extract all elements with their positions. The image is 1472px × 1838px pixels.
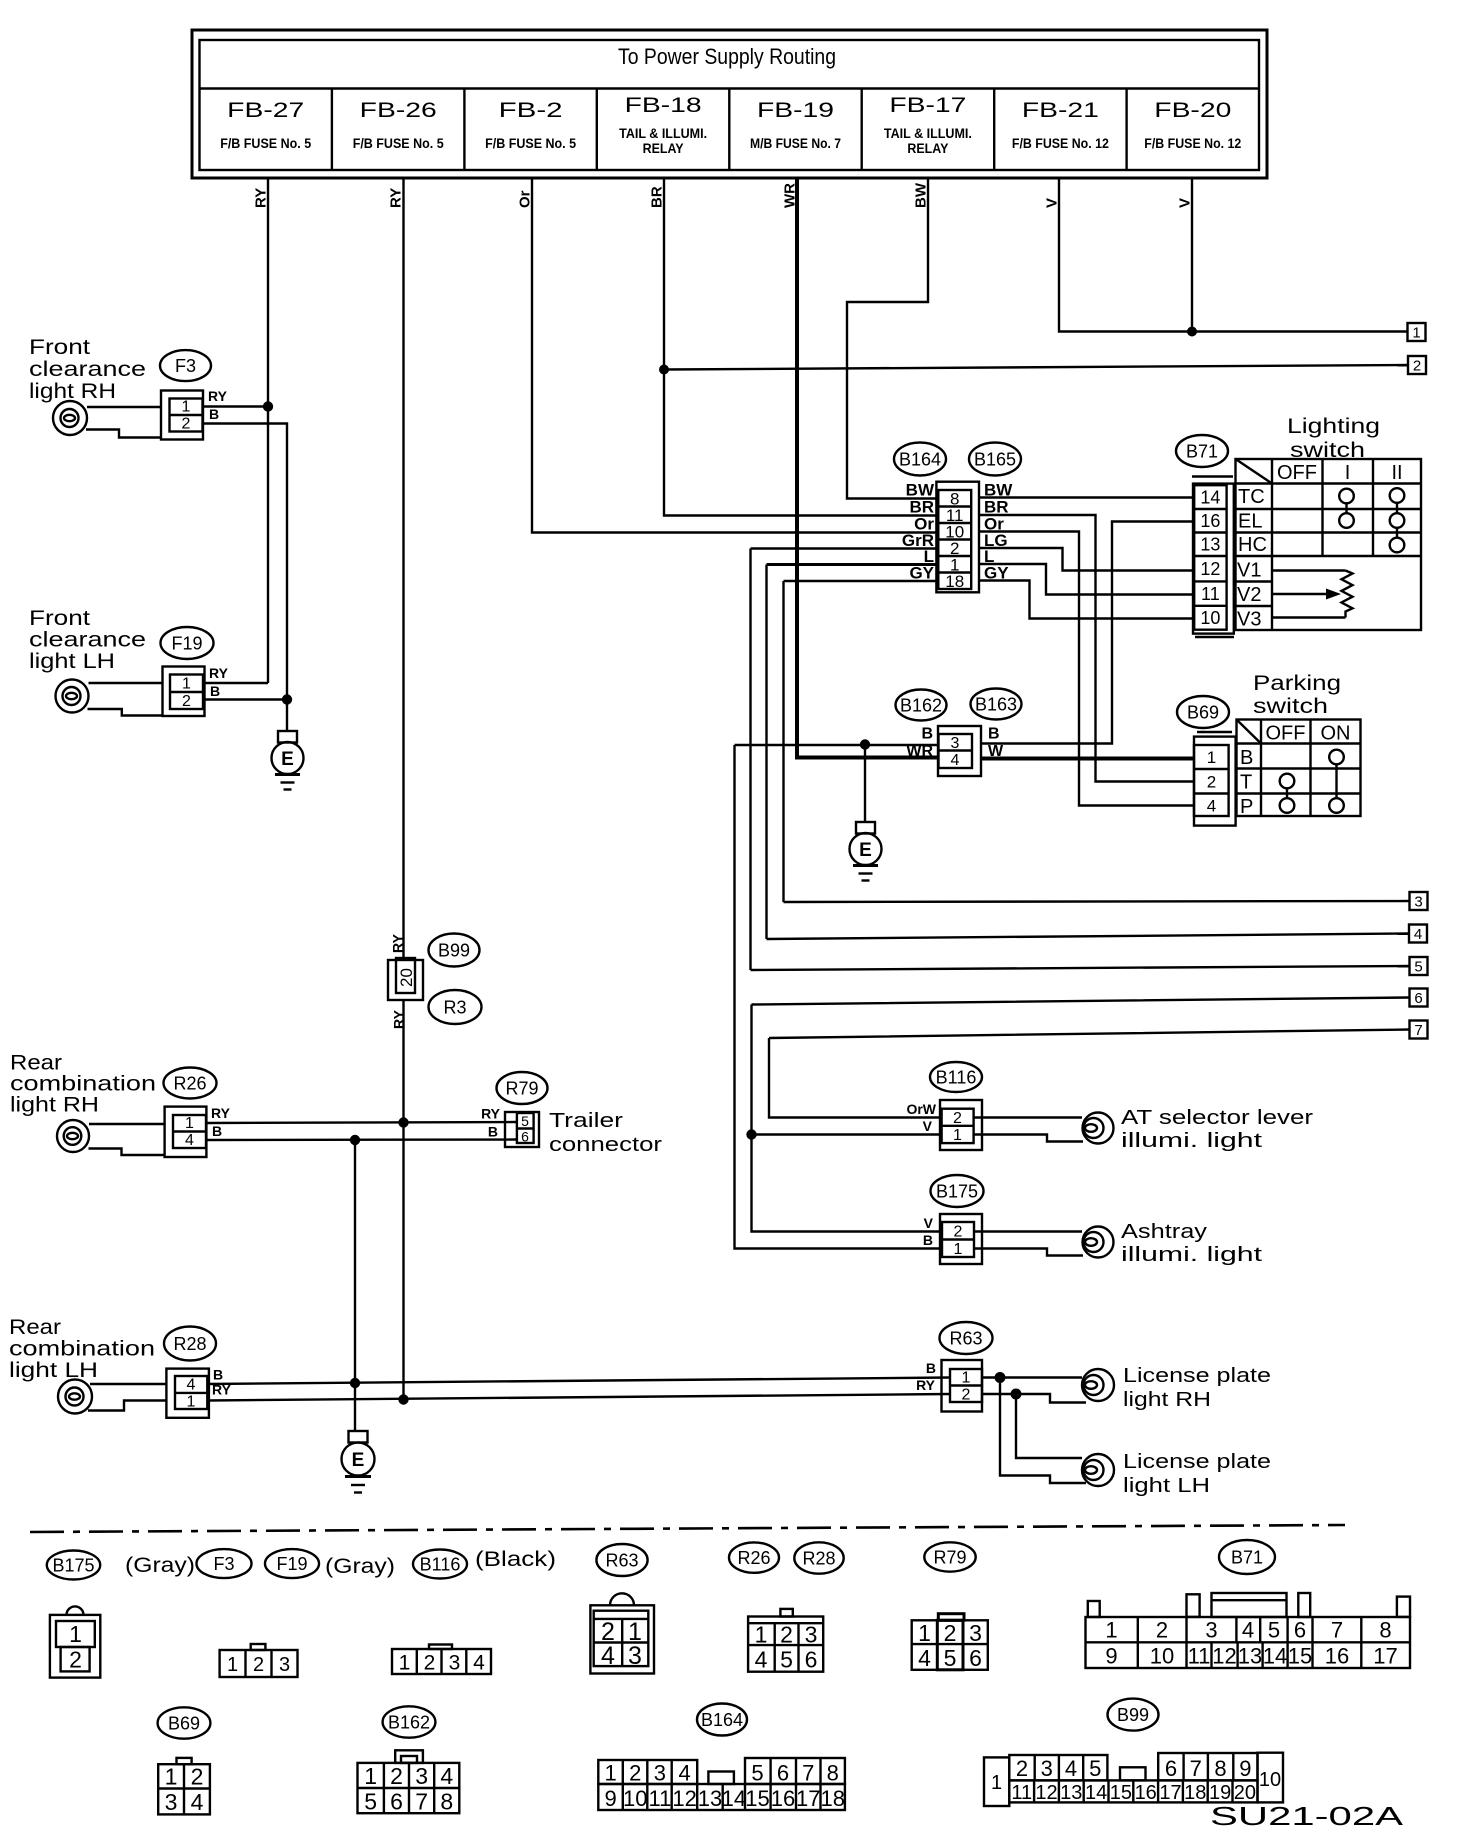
svg-text:FB-27: FB-27: [227, 99, 304, 122]
svg-text:13: 13: [1060, 1782, 1082, 1804]
svg-text:13: 13: [1238, 1644, 1262, 1669]
bulb rear combination LH: [58, 1380, 166, 1414]
svg-text:F3: F3: [213, 1554, 234, 1574]
node RY/FB-26 junction: [398, 1117, 408, 1127]
svg-text:2: 2: [1413, 358, 1421, 375]
svg-text:B163: B163: [975, 695, 1017, 715]
svg-text:6: 6: [805, 1647, 818, 1673]
svg-text:F19: F19: [276, 1554, 307, 1574]
bottom drawing R63: [590, 1593, 654, 1673]
svg-text:(Gray): (Gray): [125, 1554, 195, 1577]
wire to terminal 4: [767, 934, 1410, 940]
node F3 RY junction: [263, 401, 273, 411]
ground E B162: [850, 822, 882, 881]
svg-text:V2: V2: [1237, 584, 1261, 606]
bottom ref R28: [794, 1542, 843, 1573]
svg-text:combination: combination: [9, 1338, 155, 1361]
connector B116: [906, 1062, 982, 1150]
svg-text:B116: B116: [936, 1068, 977, 1088]
separator dash-dot line: [30, 1525, 1345, 1532]
connector R79 trailer: [481, 1072, 662, 1156]
bottom ref B164: [697, 1704, 747, 1736]
svg-text:2: 2: [253, 1654, 264, 1676]
svg-text:RY: RY: [481, 1106, 501, 1122]
bulb front clearance RH: [53, 401, 161, 438]
svg-text:20: 20: [397, 968, 416, 987]
svg-text:5: 5: [1268, 1618, 1280, 1643]
svg-text:FB-2: FB-2: [499, 99, 563, 122]
svg-text:4: 4: [440, 1763, 453, 1789]
svg-text:switch: switch: [1253, 695, 1328, 718]
svg-text:4: 4: [473, 1652, 485, 1675]
svg-text:B: B: [210, 683, 220, 699]
svg-text:9: 9: [604, 1786, 616, 1811]
connector R26: [164, 1068, 231, 1158]
svg-text:1: 1: [1105, 1618, 1117, 1643]
bulb rear combination RH: [57, 1120, 165, 1155]
bottom ref F19: [265, 1549, 319, 1578]
svg-text:HC: HC: [1238, 534, 1267, 556]
node rear B at R28: [350, 1378, 360, 1388]
svg-text:8: 8: [440, 1789, 453, 1815]
svg-text:B: B: [209, 406, 219, 422]
svg-text:B: B: [921, 726, 933, 743]
svg-text:B71: B71: [1186, 442, 1218, 462]
svg-text:6: 6: [1294, 1618, 1306, 1643]
wire to terminal 6: [752, 998, 1410, 1232]
svg-text:2: 2: [191, 1764, 204, 1790]
fuse cell FB-2: [485, 99, 576, 151]
fuse cell FB-21: [1012, 99, 1109, 151]
svg-text:B: B: [926, 1360, 936, 1376]
node R63 pin2: [1011, 1389, 1022, 1400]
svg-text:3: 3: [1205, 1618, 1217, 1643]
bulb license plate RH: [1082, 1365, 1271, 1411]
svg-text:13: 13: [698, 1786, 722, 1811]
node V junction: [1187, 327, 1197, 337]
wire F19 RY row: [205, 682, 268, 684]
label Lighting switch: [1287, 415, 1380, 462]
wire R26 RY row to trailer connector: [207, 1122, 518, 1123]
svg-text:R26: R26: [737, 1548, 770, 1568]
svg-text:B: B: [213, 1367, 223, 1383]
wire F3 RY row: [204, 405, 269, 407]
ground E rear combination: [342, 1431, 375, 1493]
connector R28: [164, 1327, 232, 1418]
svg-text:5: 5: [780, 1647, 793, 1673]
svg-text:3: 3: [1041, 1756, 1053, 1781]
svg-text:2: 2: [954, 1224, 963, 1241]
svg-text:RY: RY: [388, 188, 405, 208]
svg-text:GY: GY: [909, 564, 934, 583]
wire R63 pin1 branch: [982, 1378, 1086, 1484]
wire F19 B row: [205, 698, 287, 700]
svg-text:2: 2: [629, 1761, 641, 1786]
parking switch table: [1237, 720, 1361, 819]
svg-text:R26: R26: [173, 1074, 206, 1094]
svg-text:10: 10: [1259, 1769, 1281, 1791]
svg-text:1: 1: [165, 1764, 178, 1790]
wire B163 B row to B71 pin 16: [981, 522, 1194, 744]
svg-text:B99: B99: [438, 941, 470, 961]
wire LG to B71 pin 12: [979, 548, 1194, 571]
svg-text:1: 1: [1412, 325, 1420, 342]
svg-text:I: I: [1345, 462, 1351, 484]
svg-text:7: 7: [415, 1789, 428, 1815]
terminal 4: [1409, 925, 1427, 944]
svg-text:15: 15: [1288, 1644, 1312, 1669]
bottom ref R63: [596, 1544, 647, 1576]
svg-text:light RH: light RH: [1123, 1389, 1211, 1411]
svg-text:F/B FUSE No. 12: F/B FUSE No. 12: [1144, 135, 1241, 151]
wire F3 B row: [204, 424, 288, 700]
wire RY from FB-27: [267, 178, 269, 683]
svg-text:B71: B71: [1231, 1548, 1263, 1568]
label Parking switch: [1253, 672, 1341, 718]
svg-text:F/B FUSE No. 12: F/B FUSE No. 12: [1012, 135, 1109, 151]
svg-text:15: 15: [745, 1786, 769, 1811]
svg-text:10: 10: [1150, 1644, 1174, 1669]
svg-text:18: 18: [945, 572, 964, 591]
svg-text:18: 18: [1184, 1782, 1206, 1804]
svg-text:B164: B164: [899, 450, 941, 470]
svg-text:RY: RY: [211, 1105, 231, 1121]
connector R63: [916, 1322, 992, 1412]
svg-text:1: 1: [755, 1622, 768, 1648]
wire L vertical: [765, 565, 767, 940]
svg-text:R63: R63: [949, 1329, 982, 1349]
svg-text:SU21-02A: SU21-02A: [1210, 1801, 1404, 1831]
svg-text:R28: R28: [802, 1549, 835, 1569]
svg-text:13: 13: [1200, 535, 1220, 555]
svg-text:V: V: [923, 1118, 933, 1134]
wire V from FB-21 to terminal 1: [1059, 178, 1408, 332]
svg-text:2: 2: [962, 1387, 971, 1404]
node F19 B junction: [282, 694, 292, 704]
svg-text:16: 16: [1325, 1644, 1349, 1669]
svg-text:RELAY: RELAY: [907, 141, 948, 156]
svg-text:OFF: OFF: [1277, 462, 1317, 484]
svg-text:15: 15: [1110, 1782, 1132, 1804]
svg-text:F/B FUSE No. 5: F/B FUSE No. 5: [353, 135, 444, 151]
svg-text:B: B: [212, 1123, 222, 1139]
svg-text:2: 2: [1207, 773, 1216, 792]
connector B69: [1177, 696, 1236, 826]
svg-text:12: 12: [1212, 1644, 1236, 1669]
wire L row: [767, 563, 939, 566]
lighting switch table: [1236, 459, 1422, 631]
fuse cell FB-26: [353, 99, 444, 151]
node B162 B junction: [860, 739, 870, 749]
svg-text:4: 4: [951, 752, 960, 769]
bottom drawing B162: [358, 1750, 460, 1814]
wire R28 B row to R63: [207, 1378, 950, 1385]
svg-text:4: 4: [191, 1789, 204, 1815]
svg-text:R79: R79: [933, 1548, 966, 1568]
bottom ref B175: [47, 1551, 100, 1580]
wire L to B71 pin 11: [979, 564, 1194, 595]
svg-text:6: 6: [521, 1129, 529, 1145]
svg-text:3: 3: [654, 1761, 666, 1786]
svg-text:F19: F19: [171, 634, 202, 654]
bottom drawing B71: [1086, 1593, 1411, 1669]
svg-text:5: 5: [1414, 959, 1422, 976]
svg-text:3: 3: [951, 735, 960, 752]
wire GY to B71 pin 10: [979, 581, 1194, 619]
node terminal6/B116 V junction: [746, 1129, 756, 1139]
svg-text:B: B: [923, 1232, 933, 1248]
wire RY from FB-26: [402, 178, 404, 1400]
svg-text:Front: Front: [29, 607, 90, 630]
svg-text:RY: RY: [209, 665, 229, 681]
svg-text:B116: B116: [420, 1555, 461, 1575]
svg-text:7: 7: [1414, 1022, 1422, 1039]
node BR/terminal2 junction: [659, 365, 669, 375]
svg-text:11: 11: [1011, 1782, 1032, 1804]
svg-text:3: 3: [415, 1763, 428, 1789]
svg-text:2: 2: [944, 1620, 957, 1646]
svg-text:Rear: Rear: [9, 1316, 61, 1339]
svg-text:3: 3: [449, 1652, 461, 1675]
svg-text:9: 9: [1239, 1756, 1251, 1781]
bottom ref F3: [197, 1549, 252, 1578]
svg-text:Rear: Rear: [10, 1052, 62, 1075]
wire to terminal 2: [664, 365, 1408, 370]
svg-text:F/B FUSE No. 5: F/B FUSE No. 5: [485, 135, 576, 151]
svg-text:B: B: [988, 726, 1000, 743]
svg-text:6: 6: [1165, 1756, 1177, 1781]
wire to terminal 3: [784, 901, 1410, 902]
svg-text:E: E: [281, 749, 294, 770]
svg-text:B162: B162: [900, 696, 942, 716]
svg-text:1: 1: [185, 1115, 194, 1132]
svg-text:8: 8: [1214, 1756, 1226, 1781]
svg-text:17: 17: [1373, 1644, 1397, 1669]
bottom drawing B69: [158, 1758, 210, 1815]
svg-text:4: 4: [1414, 926, 1422, 943]
wire GrR row: [751, 549, 939, 971]
terminal 2: [1408, 356, 1426, 375]
svg-text:1: 1: [187, 1394, 196, 1411]
connector F3: [160, 350, 228, 439]
svg-text:2: 2: [182, 693, 191, 710]
svg-text:B164: B164: [701, 1710, 743, 1730]
svg-text:1: 1: [918, 1620, 931, 1646]
svg-text:10: 10: [623, 1786, 647, 1811]
rheostat in lighting switch: [1272, 571, 1353, 618]
wire BR from FB-18: [664, 178, 938, 516]
bottom drawing B175: [50, 1606, 100, 1677]
terminal 7: [1410, 1021, 1428, 1040]
svg-text:light LH: light LH: [1123, 1475, 1210, 1497]
svg-text:1: 1: [1207, 748, 1216, 767]
wire B116 V row: [752, 1133, 942, 1135]
svg-text:FB-26: FB-26: [360, 99, 437, 122]
bulb ashtray: [974, 1221, 1263, 1266]
svg-text:17: 17: [796, 1786, 820, 1811]
wire GY row: [784, 581, 939, 902]
svg-text:F3: F3: [175, 356, 196, 376]
svg-text:Lighting: Lighting: [1287, 415, 1380, 438]
svg-text:2: 2: [182, 416, 191, 433]
connector B162/B163: [896, 689, 1022, 777]
svg-text:11: 11: [1201, 584, 1220, 604]
bottom ref R79: [924, 1542, 975, 1571]
svg-text:RY: RY: [391, 1009, 407, 1029]
svg-text:2: 2: [424, 1652, 436, 1675]
svg-text:16: 16: [771, 1786, 795, 1811]
svg-text:6: 6: [1414, 990, 1422, 1007]
svg-text:2: 2: [1156, 1618, 1168, 1643]
bottom drawing B116: [392, 1645, 491, 1675]
svg-text:FB-19: FB-19: [757, 99, 834, 122]
svg-text:License plate: License plate: [1123, 1365, 1271, 1387]
power supply routing box: [192, 30, 1267, 178]
svg-text:Front: Front: [29, 336, 90, 359]
connector B164/B165: [894, 443, 1021, 593]
svg-text:License plate: License plate: [1123, 1451, 1271, 1473]
wire V from FB-20: [1191, 178, 1193, 332]
svg-text:P: P: [1240, 796, 1253, 818]
wire R26 B row to trailer connector: [207, 1138, 518, 1141]
svg-text:5: 5: [1089, 1756, 1101, 1781]
svg-text:(Gray): (Gray): [325, 1555, 395, 1578]
svg-text:5: 5: [751, 1761, 763, 1786]
svg-text:5: 5: [521, 1113, 529, 1129]
svg-text:B99: B99: [1117, 1705, 1149, 1725]
label Front clearance light LH: [29, 607, 146, 673]
svg-text:light RH: light RH: [10, 1094, 99, 1117]
svg-text:11: 11: [1188, 1644, 1211, 1669]
svg-text:light LH: light LH: [29, 650, 115, 673]
svg-text:4: 4: [187, 1377, 196, 1394]
svg-text:3: 3: [279, 1654, 290, 1676]
svg-text:TAIL & ILLUMI.: TAIL & ILLUMI.: [619, 126, 707, 141]
bottom ref B116: [413, 1550, 467, 1579]
svg-text:II: II: [1391, 462, 1402, 484]
svg-text:4: 4: [918, 1645, 931, 1671]
svg-text:11: 11: [648, 1786, 671, 1811]
terminal 3: [1410, 892, 1428, 911]
svg-text:B175: B175: [936, 1182, 978, 1202]
svg-text:16: 16: [1200, 511, 1220, 531]
wire B163 W row to B69 pin 1: [981, 757, 1194, 761]
svg-text:OrW: OrW: [906, 1101, 936, 1117]
svg-text:1: 1: [954, 1241, 963, 1258]
connector B175: [923, 1175, 984, 1264]
svg-text:4: 4: [185, 1132, 194, 1149]
terminal 6: [1410, 989, 1428, 1008]
svg-text:E: E: [859, 840, 872, 861]
svg-text:FB-21: FB-21: [1022, 99, 1099, 122]
svg-text:7: 7: [802, 1761, 814, 1786]
svg-text:ON: ON: [1321, 723, 1351, 745]
svg-text:Parking: Parking: [1253, 672, 1341, 695]
bulb license plate LH: [1082, 1451, 1271, 1497]
svg-text:1: 1: [953, 1127, 962, 1144]
wire rear B vertical: [354, 1140, 356, 1431]
svg-text:2: 2: [953, 1110, 962, 1127]
wire Or to B69 pin 4: [979, 532, 1194, 806]
svg-text:To Power Supply Routing: To Power Supply Routing: [618, 44, 836, 69]
bottom ref B162: [383, 1706, 436, 1737]
wire WR from FB-19: [797, 178, 938, 758]
fuse cell FB-19: [750, 99, 841, 151]
svg-text:3: 3: [628, 1642, 642, 1670]
wire R28 RY row to R63: [207, 1394, 950, 1401]
svg-text:M/B FUSE No. 7: M/B FUSE No. 7: [750, 135, 841, 151]
svg-text:FB-18: FB-18: [625, 94, 702, 117]
svg-text:(Black): (Black): [475, 1548, 556, 1571]
terminal 1: [1408, 323, 1426, 342]
wire BR to B69 pin 2: [979, 515, 1194, 782]
svg-text:1: 1: [182, 676, 191, 693]
svg-text:EL: EL: [1238, 511, 1262, 533]
svg-text:1: 1: [364, 1763, 377, 1789]
svg-text:2: 2: [69, 1647, 82, 1673]
svg-text:12: 12: [1200, 559, 1220, 579]
svg-text:TAIL & ILLUMI.: TAIL & ILLUMI.: [884, 126, 972, 141]
svg-text:FB-17: FB-17: [889, 94, 966, 117]
svg-text:TC: TC: [1238, 486, 1265, 508]
wire to ground E front: [286, 700, 288, 732]
bulb front clearance LH: [56, 680, 163, 716]
svg-text:B: B: [1240, 747, 1253, 769]
connector B71: [1176, 435, 1234, 637]
wire to terminal 5: [751, 966, 1410, 970]
svg-text:illumi. light: illumi. light: [1121, 1244, 1263, 1266]
svg-text:R28: R28: [173, 1334, 206, 1354]
svg-text:B69: B69: [168, 1714, 200, 1734]
node rear B junction: [350, 1135, 360, 1145]
bottom drawing R26/R28: [748, 1609, 823, 1673]
bottom ref R26: [729, 1542, 779, 1572]
svg-text:OFF: OFF: [1266, 723, 1306, 745]
svg-text:V3: V3: [1237, 609, 1261, 631]
svg-text:6: 6: [390, 1789, 403, 1815]
relay cell FB-17: [884, 94, 972, 156]
svg-text:AT selector lever: AT selector lever: [1121, 1107, 1313, 1129]
label Front clearance light RH: [29, 336, 146, 403]
svg-text:2: 2: [780, 1622, 793, 1648]
svg-text:7: 7: [1331, 1618, 1343, 1643]
svg-text:12: 12: [672, 1786, 696, 1811]
svg-text:4: 4: [601, 1642, 615, 1670]
svg-text:9: 9: [1105, 1644, 1117, 1669]
relay cell FB-18: [619, 94, 707, 156]
svg-text:14: 14: [722, 1786, 746, 1811]
bulb AT selector: [974, 1107, 1314, 1152]
fuse cell FB-20: [1144, 99, 1241, 151]
svg-text:14: 14: [1263, 1644, 1287, 1669]
svg-text:V: V: [924, 1215, 934, 1231]
terminal 5: [1410, 957, 1428, 976]
bottom drawing F3/F19: [220, 1644, 298, 1677]
svg-text:B165: B165: [974, 450, 1016, 470]
svg-text:F/B FUSE No. 5: F/B FUSE No. 5: [220, 135, 311, 151]
svg-text:B69: B69: [1187, 703, 1219, 723]
connector F19: [161, 627, 229, 716]
svg-text:1: 1: [991, 1772, 1002, 1794]
svg-text:4: 4: [678, 1761, 690, 1786]
svg-text:14: 14: [1085, 1782, 1107, 1804]
bottom ref B99: [1108, 1699, 1159, 1731]
svg-text:2: 2: [390, 1763, 403, 1789]
svg-text:Ashtray: Ashtray: [1121, 1221, 1207, 1243]
wire to ground B162: [864, 745, 866, 823]
fuse cell FB-27: [220, 99, 311, 151]
svg-text:4: 4: [1065, 1756, 1077, 1781]
